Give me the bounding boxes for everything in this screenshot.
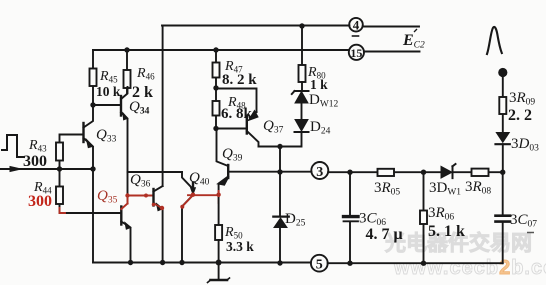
node 3R06 top <box>421 170 426 175</box>
svg-text:3R09: 3R09 <box>509 90 535 108</box>
node emitter junction Q33 <box>90 166 95 171</box>
resistor R50 <box>215 225 222 240</box>
svg-text:Q35: Q35 <box>97 188 118 206</box>
wire line5 <box>93 262 503 265</box>
svg-text:6. 8k: 6. 8k <box>221 106 253 122</box>
resistor 3R05 <box>378 169 395 176</box>
node 3C06 bottom <box>347 261 352 266</box>
svg-text:300: 300 <box>23 153 47 170</box>
node R48 bottom <box>213 126 218 131</box>
svg-text:Q37: Q37 <box>263 118 284 136</box>
diode 3Dw1 <box>441 166 452 178</box>
svg-text:Q36: Q36 <box>130 172 151 190</box>
resistor 3R09 <box>502 77 504 133</box>
svg-text:EC2: EC2 <box>402 32 425 51</box>
transistor Q40 <box>192 183 194 189</box>
resistor R80 <box>299 65 306 82</box>
diode 3D03 <box>496 133 509 143</box>
red tick R44 bottom <box>60 208 66 213</box>
resistor R47 <box>215 50 217 88</box>
resistor R44 <box>60 169 121 213</box>
node input junction <box>57 166 62 171</box>
svg-text:4. 7 μ: 4. 7 μ <box>366 226 403 243</box>
wire rail1 top <box>162 26 419 27</box>
svg-text:R43: R43 <box>28 138 47 154</box>
svg-text:3.3 k: 3.3 k <box>226 239 254 254</box>
svg-text:Q39: Q39 <box>222 146 243 164</box>
svg-text:15: 15 <box>350 46 362 60</box>
svg-text:DW12: DW12 <box>309 92 339 110</box>
red tick Q39 emitter <box>218 191 220 196</box>
svg-text:3C07: 3C07 <box>510 212 537 230</box>
node right column line3 <box>500 170 505 175</box>
wire emitter loop Q37 <box>216 89 257 113</box>
svg-text:8. 2 k: 8. 2 k <box>222 72 257 88</box>
terminal 4 <box>349 18 363 32</box>
transistor Q36 <box>152 189 154 206</box>
svg-text:4: 4 <box>353 18 360 33</box>
diode D24 <box>295 120 308 132</box>
wire collector rail Q36 to rail1 <box>162 26 164 186</box>
wire D25 branch <box>279 147 281 217</box>
svg-text:10 k: 10 k <box>96 84 121 99</box>
resistor R48 <box>215 88 217 129</box>
transistor Q34 <box>120 96 122 116</box>
svg-text:3R05: 3R05 <box>374 180 400 198</box>
svg-text:www.cecb2b.com: www.cecb2b.com <box>393 257 546 279</box>
transistor Q35 <box>120 207 122 225</box>
wire input line <box>0 168 93 170</box>
red segment Q35 collector rail <box>127 196 129 204</box>
svg-text:R46: R46 <box>136 66 155 82</box>
node R46 top <box>124 47 129 52</box>
wire base Q40 (red) <box>188 194 219 196</box>
resistor R45 <box>92 50 94 105</box>
diode D25 <box>274 218 287 228</box>
capacitor 3C06 <box>349 172 351 215</box>
node R47 bottom <box>213 85 218 90</box>
node 3R06 bottom <box>421 261 426 266</box>
node Q35 emitter bottom <box>128 260 133 265</box>
terminal 5 <box>311 255 328 272</box>
transistor Q39 <box>217 129 229 167</box>
svg-text:2. 2: 2. 2 <box>508 107 532 124</box>
svg-text:5. 1 k: 5. 1 k <box>428 223 465 240</box>
resistor 3R06 <box>423 172 425 263</box>
svg-text:5: 5 <box>316 258 323 273</box>
spike waveform <box>487 27 502 54</box>
node line3 x280 <box>277 169 282 174</box>
minus mark 3C07 <box>527 232 534 234</box>
terminal 3 <box>311 162 328 179</box>
wire Q34-emitter node to Q40 collector <box>128 171 183 173</box>
svg-text:3R08: 3R08 <box>465 179 491 197</box>
resistor 3R08 <box>472 169 489 176</box>
resistor R43 <box>60 135 84 170</box>
tick under terminal 4 <box>353 35 359 37</box>
svg-text:Q33: Q33 <box>96 127 117 145</box>
node Q36 emitter bottom <box>160 260 165 265</box>
ground <box>218 263 220 280</box>
svg-text:Q40: Q40 <box>189 170 210 188</box>
node line5 x280 <box>277 260 282 265</box>
input arrow <box>10 167 21 172</box>
capacitor 3C07 <box>502 172 504 214</box>
transistor Q33 <box>82 123 84 142</box>
svg-text:R45: R45 <box>99 69 118 85</box>
pulse input symbol <box>2 135 24 157</box>
wire rail2 <box>93 50 420 52</box>
node junction rail1 <box>299 23 304 28</box>
transistor Q37 <box>246 116 248 134</box>
svg-text:3DW1: 3DW1 <box>429 180 461 198</box>
node 3C06 top <box>347 170 352 175</box>
collector Q35 (red traced) <box>121 204 127 210</box>
svg-text:300: 300 <box>28 193 52 210</box>
terminal 15 <box>349 45 364 60</box>
node R50 bottom <box>216 260 222 266</box>
node Q40 emitter bottom <box>179 260 184 265</box>
node Q37 collector line <box>277 144 282 149</box>
node R45 bottom <box>90 102 95 107</box>
resistor R46 <box>126 50 128 93</box>
svg-text:3D03: 3D03 <box>511 136 539 154</box>
svg-text:1 k: 1 k <box>310 77 328 92</box>
terminal dot right column <box>498 68 507 77</box>
svg-text:3R06: 3R06 <box>428 205 454 223</box>
wire base Q36 (red) <box>128 195 154 197</box>
svg-text:D24: D24 <box>310 119 331 137</box>
zener Dw12 <box>295 92 308 104</box>
wire rail x302 <box>301 26 303 65</box>
svg-text:3: 3 <box>316 165 323 180</box>
svg-text:Q34: Q34 <box>129 99 150 117</box>
node R47 top <box>213 47 218 52</box>
svg-text:D25: D25 <box>285 211 306 229</box>
wire line3 right <box>328 171 503 173</box>
